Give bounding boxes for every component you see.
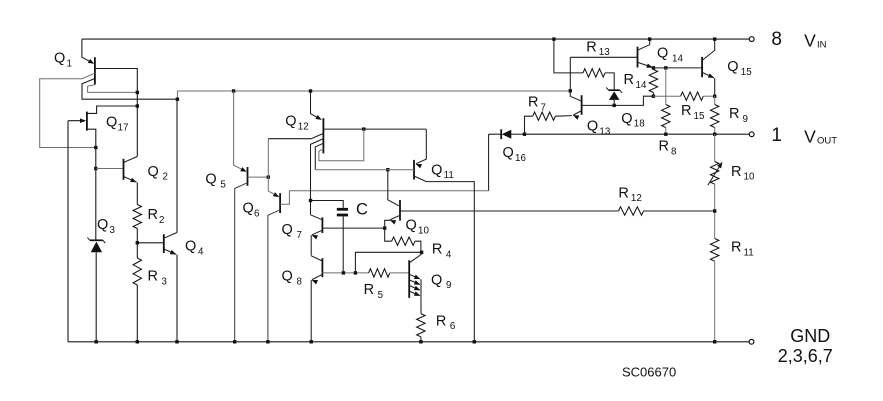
wire Q12 collector D loop to base xyxy=(319,129,364,161)
wire Q15 emitter xyxy=(714,78,716,96)
wire R4 input xyxy=(385,228,392,241)
wire Q12 collector C xyxy=(315,143,323,170)
svg-text:R11: R11 xyxy=(731,240,754,259)
svg-text:R8: R8 xyxy=(659,139,678,158)
wire Q14 base net xyxy=(570,56,637,58)
label Q8 xyxy=(282,269,303,288)
label Q5 xyxy=(205,172,226,191)
svg-text:Q6: Q6 xyxy=(243,201,261,220)
wire R8 top xyxy=(665,68,667,105)
wire Q14 collector xyxy=(648,37,651,44)
svg-text:R6: R6 xyxy=(436,313,456,332)
svg-text:Q3: Q3 xyxy=(97,217,116,236)
wire mid rail (Q1 collector bus) xyxy=(177,89,572,99)
label R4 xyxy=(432,242,452,261)
transistor Q5 xyxy=(247,167,249,186)
wire Q7 emitter to Q8 collector xyxy=(310,235,312,255)
svg-text:1: 1 xyxy=(771,125,782,146)
capacitor C xyxy=(337,208,348,217)
wire Q17 source xyxy=(87,129,96,147)
label GND pins 2367 xyxy=(778,346,833,366)
wire Q5 base xyxy=(248,175,271,178)
svg-text:Q17: Q17 xyxy=(106,115,128,134)
resistor R2 xyxy=(133,205,141,229)
svg-text:R12: R12 xyxy=(618,185,641,204)
label pin 1 xyxy=(771,125,782,146)
wire R4 to Q9 collector xyxy=(415,241,421,252)
svg-text:R10: R10 xyxy=(731,164,755,183)
svg-text:2,3,6,7: 2,3,6,7 xyxy=(778,346,833,366)
svg-text:Q13: Q13 xyxy=(587,119,611,138)
label Q16 xyxy=(503,145,527,164)
label VIN xyxy=(804,31,827,51)
zener Q3 xyxy=(87,238,105,253)
transistor Q7 xyxy=(311,215,323,240)
label Q14 xyxy=(657,46,683,65)
wire Q8 emitter to GND xyxy=(310,280,313,344)
label R11 xyxy=(731,240,754,259)
resistor R6 xyxy=(417,314,425,337)
wire R11 to GND xyxy=(713,261,716,343)
label pin 8 xyxy=(771,29,782,50)
label Q4 xyxy=(185,239,204,258)
svg-text:GND: GND xyxy=(790,326,830,346)
node GND terminal xyxy=(749,339,754,344)
resistor R3 xyxy=(133,258,141,285)
svg-text:R5: R5 xyxy=(364,282,384,301)
label Q12 xyxy=(285,114,308,133)
label Q7 xyxy=(282,222,302,241)
transistor Q17 xyxy=(68,112,87,131)
wire Q13 collector xyxy=(569,57,571,96)
svg-text:R15: R15 xyxy=(681,103,705,122)
transistor Q6 xyxy=(279,193,281,213)
svg-text:V: V xyxy=(804,127,816,147)
wire Q1 collector B xyxy=(82,79,179,101)
wire Q1 base to node xyxy=(95,69,139,157)
wire Q17 gate to GND xyxy=(67,121,69,342)
diode Q16 xyxy=(501,129,526,139)
svg-text:Q12: Q12 xyxy=(285,114,308,133)
label Q11 xyxy=(431,162,454,181)
label VOUT xyxy=(804,127,837,147)
label R7 xyxy=(528,95,546,114)
resistor R15 xyxy=(681,92,704,100)
wire R2 to R3 node xyxy=(136,229,139,259)
transistor Q1 xyxy=(82,39,95,85)
wire R15 right xyxy=(703,95,716,98)
svg-text:R9: R9 xyxy=(729,106,748,125)
node VOUT terminal pin 1 xyxy=(749,132,754,137)
wire Q12 collector A xyxy=(268,133,323,138)
svg-text:Q18: Q18 xyxy=(621,111,645,130)
svg-text:R3: R3 xyxy=(148,269,168,288)
wire Q9 collector node xyxy=(355,251,423,273)
svg-text:IN: IN xyxy=(817,39,827,50)
wire Q10 base / R12 net xyxy=(400,210,618,212)
svg-text:Q14: Q14 xyxy=(657,46,683,65)
svg-text:Q10: Q10 xyxy=(406,218,430,237)
svg-text:Q15: Q15 xyxy=(727,59,752,78)
svg-text:SC06670: SC06670 xyxy=(622,365,676,380)
wire Q11 collector to GND xyxy=(414,176,476,344)
wire cap C top xyxy=(311,201,344,208)
resistor R12 xyxy=(618,207,643,215)
label Q13 xyxy=(587,119,611,138)
wire Q2 base node to Q3 xyxy=(95,169,97,240)
wire Q10 emitter xyxy=(385,220,390,228)
resistor R5 xyxy=(369,269,390,277)
wire VIN rail (pin 8) xyxy=(82,38,752,40)
wire VOUT rail (pin 1) xyxy=(489,133,752,135)
svg-text:Q2: Q2 xyxy=(148,164,168,183)
wire R13 to Q18 xyxy=(605,73,614,90)
transistor Q10 xyxy=(390,200,400,225)
transistor Q9 xyxy=(409,254,421,298)
node VIN terminal pin 8 xyxy=(749,37,754,42)
wire R10 top xyxy=(714,134,716,161)
svg-text:R4: R4 xyxy=(432,242,452,261)
label R14 xyxy=(624,72,647,91)
wire R6 to GND xyxy=(419,337,422,344)
wire Q11 base xyxy=(315,169,414,171)
label R9 xyxy=(729,106,748,125)
label SC06670 xyxy=(622,365,676,380)
svg-text:V: V xyxy=(804,31,816,51)
label Q15 xyxy=(727,59,752,78)
wire Q5 emitter xyxy=(234,91,247,172)
wire Q17 drain xyxy=(87,106,136,113)
wire Q3 to GND xyxy=(95,252,98,343)
transistor Q13 xyxy=(570,95,581,120)
wire R5 to Q9 base xyxy=(390,272,409,274)
wire Q11 emitter xyxy=(416,129,427,168)
wire Q10 collector xyxy=(386,168,399,206)
label Q10 xyxy=(406,218,430,237)
svg-text:Q9: Q9 xyxy=(431,272,451,291)
label R13 xyxy=(586,39,610,58)
zener Q18 xyxy=(606,88,622,106)
resistor R9 xyxy=(711,105,719,128)
wire R14 bottom xyxy=(652,93,654,97)
wire Q4 emitter to GND xyxy=(175,255,178,344)
wire Q12 base xyxy=(323,127,426,130)
wire Q6 emitter xyxy=(268,139,279,197)
svg-text:OUT: OUT xyxy=(817,136,837,147)
label R5 xyxy=(364,282,384,301)
wire R7 left xyxy=(525,116,533,134)
wire R9 to VOUT xyxy=(713,128,716,136)
wire Q1 collector A xyxy=(40,73,98,149)
svg-text:Q11: Q11 xyxy=(431,162,454,181)
wire Q4 collector xyxy=(176,99,178,232)
label Q2 xyxy=(148,164,168,183)
svg-text:Q5: Q5 xyxy=(205,172,226,191)
wire R7 to Q13 emitter xyxy=(555,115,571,118)
wire Q8 base xyxy=(322,271,368,274)
wire Q5 collector to GND xyxy=(233,183,248,344)
resistor R13 xyxy=(583,69,605,77)
wire GND rail xyxy=(68,341,752,343)
resistor R10 (trimmed) xyxy=(708,162,723,186)
svg-text:C: C xyxy=(356,201,368,219)
resistor R11 xyxy=(711,239,719,262)
resistor R14 xyxy=(649,70,657,93)
transistor Q14 xyxy=(638,45,653,68)
wire Q14 emitter to Q15 base xyxy=(652,66,702,69)
label R15 xyxy=(681,103,705,122)
label R2 xyxy=(148,207,165,226)
wire R9 top xyxy=(714,96,716,104)
wire Q12 emitter xyxy=(311,91,322,120)
transistor Q15 xyxy=(702,50,715,78)
wire R15 left xyxy=(653,95,680,97)
wire Q6 collector to GND xyxy=(266,210,280,344)
wire Q9 emitters to R6 xyxy=(420,279,422,313)
wire Q16 anode net xyxy=(488,134,490,191)
transistor Q2 xyxy=(124,157,138,183)
wire R3 to GND xyxy=(136,285,139,344)
resistor R4 xyxy=(392,237,415,245)
label C xyxy=(356,201,368,219)
svg-text:Q8: Q8 xyxy=(282,269,303,288)
svg-text:Q1: Q1 xyxy=(54,51,72,70)
label R3 xyxy=(148,269,168,288)
wire Q1 collector C loop to base xyxy=(88,85,136,93)
transistor Q11 xyxy=(413,160,415,180)
wire Q12 collector B xyxy=(309,139,324,215)
label Q3 xyxy=(97,217,116,236)
wire Q13 base xyxy=(582,95,656,108)
label GND xyxy=(790,326,830,346)
wire R8 to VOUT xyxy=(664,128,667,136)
svg-text:R13: R13 xyxy=(586,39,610,58)
transistor Q12 xyxy=(322,118,324,153)
wire Q2 base node xyxy=(94,148,123,171)
wire R13 feed from VIN xyxy=(552,37,583,73)
svg-text:R2: R2 xyxy=(148,207,165,226)
label Q6 xyxy=(243,201,261,220)
svg-text:Q7: Q7 xyxy=(282,222,302,241)
svg-text:Q16: Q16 xyxy=(503,145,527,164)
wire cap C bottom xyxy=(342,216,344,273)
label Q9 xyxy=(431,272,451,291)
wire Q7 base xyxy=(322,226,386,229)
svg-text:8: 8 xyxy=(771,29,782,50)
wire R12 right xyxy=(644,210,715,212)
resistor R8 xyxy=(662,105,670,128)
label R8 xyxy=(659,139,678,158)
resistor R7 xyxy=(533,112,556,120)
label R6 xyxy=(436,313,456,332)
label R12 xyxy=(618,185,641,204)
wire Q2 emitter to R2 xyxy=(136,183,138,205)
wire Q15 collector xyxy=(713,37,716,50)
transistor Q8 xyxy=(311,256,322,285)
svg-text:Q4: Q4 xyxy=(185,239,204,258)
label Q18 xyxy=(621,111,645,130)
wire Q6 base to Q16 net xyxy=(280,191,489,205)
svg-text:R7: R7 xyxy=(528,95,546,114)
svg-text:R14: R14 xyxy=(624,72,647,91)
label R10 xyxy=(731,164,755,183)
label Q17 xyxy=(106,115,128,134)
label Q1 xyxy=(54,51,72,70)
transistor Q4 xyxy=(137,233,177,255)
wire R10 to R11 node xyxy=(713,184,716,238)
